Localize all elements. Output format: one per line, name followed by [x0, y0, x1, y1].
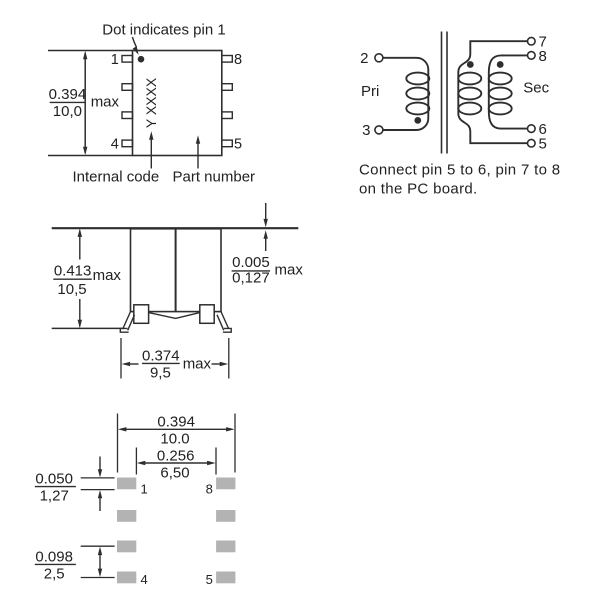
dimension label 0.394/10,0 max: [49, 86, 120, 120]
svg-text:max: max: [275, 261, 304, 278]
fraction bar: [35, 563, 76, 565]
primary winding wire: [383, 58, 428, 130]
dimension 0.394/10.0 line: [118, 427, 235, 431]
land pad 5: [216, 572, 235, 584]
dimension label 0.098/2,5: [35, 548, 73, 582]
left gull-wing lead: [120, 312, 134, 333]
primary loop 1: [406, 73, 429, 85]
svg-text:Y XXXX: Y XXXX: [143, 77, 159, 128]
side view: left terminal pad: [134, 305, 149, 324]
primary loop 2: [406, 88, 429, 100]
dimension 0.413 arrow line (broken): [78, 228, 82, 328]
land pad 6: [216, 541, 235, 553]
dimension label 0.256 / 6,50: [157, 447, 195, 481]
terminal 3: [375, 126, 383, 134]
pin 2 (left side): [122, 84, 133, 91]
terminal 2: [375, 54, 383, 62]
svg-text:on the PC board.: on the PC board.: [359, 181, 478, 198]
side view: right terminal pad: [200, 305, 214, 324]
land pad 1: [117, 478, 136, 490]
svg-text:0.256: 0.256: [157, 447, 195, 464]
top view: top reference line: [48, 50, 133, 52]
svg-text:4: 4: [111, 136, 119, 152]
svg-text:Connect pin 5 to 6, pin 7 to 8: Connect pin 5 to 6, pin 7 to 8: [359, 162, 560, 179]
secondary A polarity dot: [467, 61, 474, 68]
svg-text:max: max: [93, 267, 122, 284]
dimension label 0.374/9,5 max: [142, 347, 212, 381]
svg-text:5: 5: [234, 136, 242, 152]
land pad 7: [216, 510, 235, 522]
svg-text:0.098: 0.098: [35, 548, 73, 565]
transformer core line 2: [446, 32, 448, 154]
fraction bar: [35, 486, 76, 488]
svg-text:0.394: 0.394: [157, 414, 195, 431]
pin 4: [122, 140, 133, 147]
secondary B loop 1: [489, 73, 512, 85]
dimension 0.374 left arrow: [122, 362, 139, 366]
fraction bar: [50, 101, 85, 103]
pin 6 (right side): [222, 112, 233, 119]
secondary A loop 3: [458, 103, 481, 115]
pin 1: [122, 56, 133, 63]
right gull-wing lead: [217, 312, 231, 333]
svg-text:5: 5: [539, 136, 547, 153]
0.256 extension line right: [215, 448, 217, 475]
svg-text:2: 2: [360, 50, 368, 67]
0.374 extension line right: [228, 338, 230, 379]
secondary B loop 3: [489, 103, 512, 115]
dimension 0.394/10,0 arrow line: [83, 51, 87, 156]
svg-text:10.0: 10.0: [160, 430, 189, 447]
pin 7 (right side): [222, 84, 233, 91]
svg-text:3: 3: [362, 122, 370, 139]
svg-text:8: 8: [539, 48, 547, 65]
svg-text:0.050: 0.050: [35, 470, 73, 487]
svg-text:Dot indicates pin 1: Dot indicates pin 1: [102, 22, 225, 39]
terminal 5: [528, 139, 536, 147]
0.005 dimension lower arrow: [264, 230, 268, 251]
land pad 2: [117, 510, 136, 522]
svg-text:0,127: 0,127: [232, 270, 270, 287]
svg-text:0.394: 0.394: [49, 86, 87, 103]
dimension label 0.413/10,5 max: [54, 263, 122, 299]
land pattern pads: [117, 478, 235, 584]
internal code arrow: [149, 131, 153, 168]
0.394 extension line right: [234, 414, 236, 473]
svg-text:2,5: 2,5: [44, 566, 65, 583]
0.050 upper arrow: [98, 457, 102, 478]
crossing wire under body: [149, 313, 200, 319]
0.098 double arrow: [98, 547, 102, 578]
pin 5: [222, 140, 233, 147]
primary loop 3: [406, 103, 429, 115]
terminal 6: [528, 125, 536, 133]
transformer core line 1: [441, 32, 443, 154]
svg-text:5: 5: [206, 572, 213, 587]
svg-text:0.005: 0.005: [232, 254, 270, 271]
dimension 0.374 right arrow: [212, 362, 229, 366]
svg-text:10,5: 10,5: [57, 281, 86, 298]
0.394 extension line left: [117, 414, 119, 473]
side view: seating plane line: [52, 227, 299, 229]
svg-text:max: max: [91, 94, 120, 111]
0.050 reference line top: [81, 477, 115, 479]
svg-text:1,27: 1,27: [40, 487, 69, 504]
fraction bar: [232, 270, 271, 272]
fraction bar: [53, 278, 92, 280]
0.098 reference line top: [81, 545, 115, 547]
dimension 0.256/6,50 line: [137, 461, 216, 465]
terminal 7: [528, 37, 536, 45]
package body (top view): [133, 51, 222, 156]
svg-text:10,0: 10,0: [53, 103, 82, 120]
land pad 4: [117, 572, 136, 584]
svg-text:8: 8: [234, 52, 242, 68]
dimension label 0.394 / 10.0: [157, 414, 195, 448]
0.005 dimension upper arrow: [264, 203, 268, 227]
secondary B loop 2: [489, 88, 512, 100]
secondary B polarity dot: [497, 61, 504, 68]
svg-text:Part number: Part number: [173, 168, 256, 185]
svg-text:6,50: 6,50: [160, 465, 189, 482]
secondary A loop 2: [458, 88, 481, 100]
arrow to pin-1 dot: [132, 37, 138, 55]
top view: bottom reference line: [48, 155, 133, 157]
svg-text:0.374: 0.374: [142, 347, 180, 364]
0.050 lower arrow: [98, 490, 102, 511]
svg-text:1: 1: [141, 482, 148, 497]
0.050 reference line bottom: [81, 489, 115, 491]
primary polarity dot: [414, 117, 421, 124]
svg-text:Internal code: Internal code: [73, 168, 160, 185]
dimension label 0.050/1,27: [35, 470, 73, 504]
0.256 extension line left: [135, 448, 137, 475]
part number arrow: [196, 135, 200, 168]
side view: body center divider: [175, 229, 177, 312]
svg-text:4: 4: [141, 572, 148, 587]
pin 1 dot: [138, 56, 145, 63]
side view: bottom reference line: [52, 327, 125, 329]
terminal 8: [528, 52, 536, 60]
secondary A loop 1: [458, 73, 481, 85]
secondary winding A wire (pins 7-5): [458, 41, 527, 143]
land pad 3: [117, 541, 136, 553]
land pad 8: [216, 478, 235, 490]
side view: package body: [131, 229, 222, 312]
svg-text:Pri: Pri: [361, 83, 379, 100]
0.098 reference line bottom: [81, 577, 115, 579]
pin 3 (left side): [122, 112, 133, 119]
svg-text:Sec: Sec: [523, 80, 549, 97]
svg-text:0.413: 0.413: [54, 263, 92, 280]
svg-text:max: max: [183, 355, 212, 372]
secondary winding B wire (pins 8-6): [489, 55, 527, 128]
fraction bar: [142, 362, 180, 364]
pin 8: [222, 56, 233, 63]
0.374 extension line left: [120, 338, 122, 379]
svg-text:1: 1: [111, 52, 119, 68]
dimension label 0.005/0,127 max: [232, 254, 303, 287]
svg-text:8: 8: [206, 482, 213, 497]
svg-text:9,5: 9,5: [150, 365, 171, 382]
